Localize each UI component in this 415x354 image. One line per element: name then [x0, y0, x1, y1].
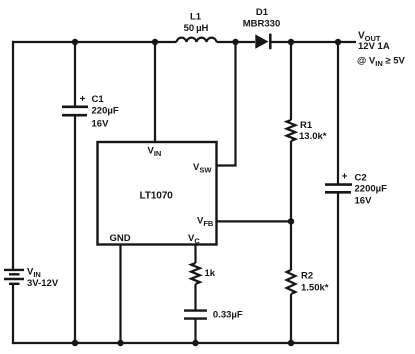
svg-text:VC: VC [188, 233, 200, 246]
svg-text:LT1070: LT1070 [140, 191, 174, 202]
wire feedback branch top (output to R1) [290, 42, 292, 120]
node junction dot bottom rail / GND pin [117, 340, 123, 346]
op-amp U1 LT1070 regulator box [98, 142, 217, 245]
node junction dot top rail / C1 [72, 39, 78, 45]
svg-text:@ VIN ≥ 5V: @ VIN ≥ 5V [357, 56, 406, 69]
wire VSW vertical branch [234, 42, 236, 166]
resistor R1 [287, 120, 296, 141]
svg-text:220µF: 220µF [92, 106, 119, 117]
svg-text:D1: D1 [256, 7, 269, 18]
svg-text:+: + [342, 172, 348, 183]
svg-text:R2: R2 [301, 270, 313, 281]
wire top rail left segment [12, 41, 177, 43]
svg-text:16V: 16V [92, 118, 110, 129]
svg-text:3V-12V: 3V-12V [27, 278, 59, 289]
node junction dot top rail / VIN pin [152, 39, 158, 45]
wire left rail upper (top rail to battery) [12, 41, 14, 269]
svg-text:12V 1A: 12V 1A [358, 41, 390, 52]
svg-text:VIN: VIN [148, 146, 162, 159]
svg-text:R1: R1 [300, 120, 313, 131]
node junction dot top rail / feedback divider [288, 39, 294, 45]
resistor R2 [287, 270, 296, 294]
svg-text:1.50k*: 1.50k* [301, 283, 329, 294]
svg-text:VIN: VIN [27, 266, 41, 279]
svg-text:C1: C1 [92, 94, 105, 105]
inductor L1 [177, 38, 217, 42]
wire VIN pin branch [154, 42, 156, 142]
svg-text:C2: C2 [355, 173, 367, 184]
svg-text:0.33µF: 0.33µF [213, 309, 243, 320]
wire C1 branch lower [74, 115, 76, 343]
diode D1 [255, 34, 270, 50]
node junction dot VFB / divider [288, 218, 294, 224]
wire top rail diode-to-output segment [270, 41, 356, 43]
wire top rail inductor-to-diode segment [217, 41, 256, 43]
battery VIN source [4, 270, 24, 284]
node junction dot bottom rail / R2 [288, 340, 294, 346]
capacitor 0.33uF compensation [184, 311, 207, 319]
wire GND pin branch [119, 245, 121, 344]
node junction dot top rail / C2 [335, 39, 341, 45]
wire right rail lower (C2 to bottom rail) [337, 193, 339, 345]
svg-text:2200µF: 2200µF [355, 184, 388, 195]
capacitor C1 [62, 107, 88, 115]
node junction dot bottom rail / C1 [72, 340, 78, 346]
wire bottom rail [12, 342, 339, 344]
svg-text:1k: 1k [205, 268, 216, 279]
svg-text:VSW: VSW [193, 162, 212, 175]
node junction dot bottom rail / 0.33uF [192, 340, 198, 346]
node junction dot top rail / VSW branch [232, 39, 238, 45]
svg-text:MBR330: MBR330 [243, 19, 281, 30]
wire VFB pin horizontal [217, 220, 292, 222]
svg-text:VFB: VFB [197, 216, 214, 229]
wire feedback branch middle (R1 to R2 through VFB node) [290, 141, 292, 270]
resistor 1k compensation [191, 263, 200, 284]
svg-text:+: + [80, 94, 86, 105]
svg-text:50 µH: 50 µH [184, 23, 209, 34]
wire C1 branch upper [74, 42, 76, 107]
wire VC pin to 1k resistor [194, 245, 196, 264]
wire 0.33uF capacitor to ground rail [194, 319, 196, 343]
capacitor C2 [325, 185, 352, 193]
wire left rail lower (battery to bottom rail) [12, 285, 14, 345]
svg-text:GND: GND [110, 233, 131, 244]
wire right rail upper (top rail to C2) [337, 41, 339, 185]
svg-text:13.0k*: 13.0k* [299, 131, 327, 142]
wire feedback branch bottom (R2 to ground rail) [290, 294, 292, 343]
svg-text:L1: L1 [190, 12, 202, 23]
wire VSW horizontal to pin [217, 164, 237, 166]
wire 1k resistor to 0.33uF capacitor [194, 284, 196, 311]
svg-text:16V: 16V [355, 196, 373, 207]
